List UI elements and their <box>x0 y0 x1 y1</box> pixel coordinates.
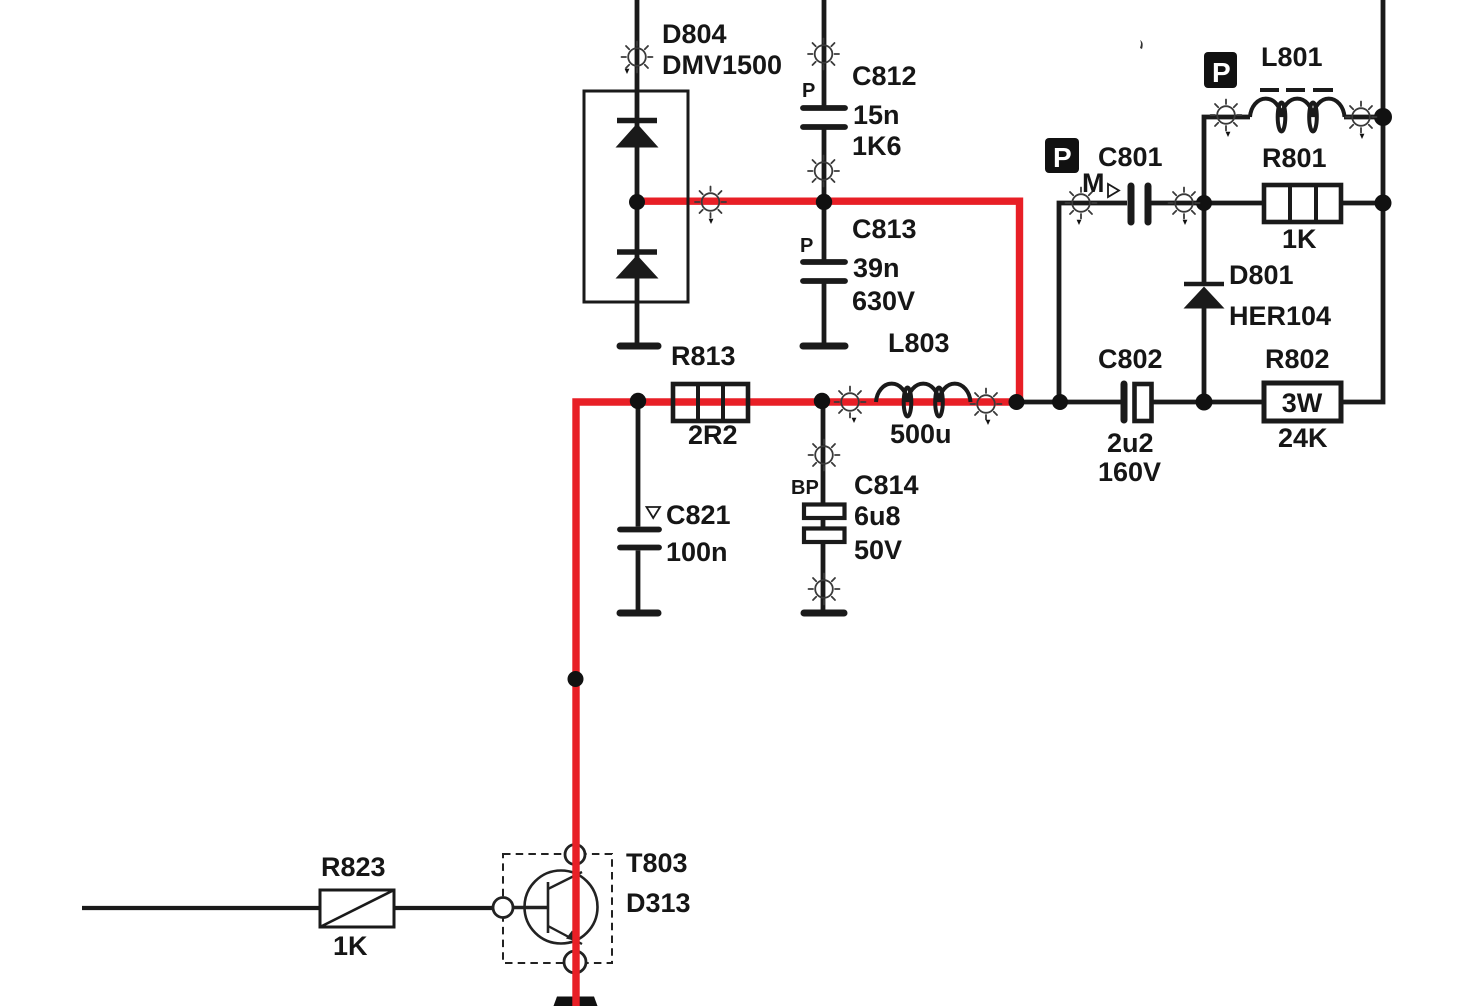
svg-text:P: P <box>802 80 815 102</box>
wire between C814 plates <box>821 517 826 529</box>
capacitor C814 plates <box>804 505 845 543</box>
svg-text:50V: 50V <box>854 535 902 565</box>
wire node to R801 left <box>1204 201 1265 206</box>
svg-text:L801: L801 <box>1261 42 1323 72</box>
svg-text:R801: R801 <box>1262 143 1327 173</box>
svg-text:1K: 1K <box>1282 224 1317 254</box>
svg-text:15n: 15n <box>853 100 900 130</box>
svg-text:R802: R802 <box>1265 344 1330 374</box>
svg-text:P: P <box>800 235 813 257</box>
inductor L803 <box>876 384 971 417</box>
svg-text:2R2: 2R2 <box>688 420 738 450</box>
svg-text:R823: R823 <box>321 852 386 882</box>
wire highlighted red net <box>576 201 1020 1006</box>
wire R823 to transistor base ring <box>393 906 494 910</box>
test point sun left of C801 <box>1066 188 1097 219</box>
capacitor C802 <box>1124 384 1152 421</box>
wire node down to D801 cathode <box>1202 203 1207 283</box>
service mark P square near L801 <box>1204 52 1237 88</box>
resistor R813 <box>673 384 748 421</box>
svg-text:C814: C814 <box>854 470 919 500</box>
test point sun below C812 <box>808 156 839 187</box>
svg-text:P: P <box>1212 57 1231 88</box>
svg-text:D801: D801 <box>1229 260 1294 290</box>
resistor R823 <box>320 890 394 927</box>
svg-text:160V: 160V <box>1098 457 1161 487</box>
wire C814 branch down <box>821 402 826 505</box>
test point sun above C814 <box>809 440 840 471</box>
node C801 branch <box>1052 394 1068 410</box>
svg-text:500u: 500u <box>890 419 952 449</box>
test point sun on D804 top wire <box>622 42 653 73</box>
service mark P square near C801 <box>1045 138 1079 173</box>
wire L801 right to bus <box>1344 115 1383 120</box>
node red corner <box>1009 394 1025 410</box>
node R813 left <box>630 393 646 409</box>
polarity mark M arrow C801 <box>1108 184 1119 197</box>
resistor R801 <box>1264 185 1341 222</box>
capacitor C801 plates <box>1131 186 1148 222</box>
svg-text:P: P <box>1053 142 1072 173</box>
wire C821 branch down <box>636 402 641 527</box>
capacitor C813 plates <box>803 262 845 281</box>
wire R801 right to bus <box>1340 201 1383 206</box>
svg-text:1K: 1K <box>333 931 368 961</box>
svg-text:1K6: 1K6 <box>852 131 902 161</box>
node D801 anode <box>1196 394 1213 411</box>
test point sun above C812 <box>808 39 839 70</box>
svg-text:3W: 3W <box>1282 388 1323 418</box>
diode D801 <box>1184 284 1225 309</box>
capacitor C812 plates <box>803 108 845 127</box>
wire C802 to D801 node and R802 <box>1151 400 1265 405</box>
svg-text:100n: 100n <box>666 537 728 567</box>
svg-text:39n: 39n <box>853 253 900 283</box>
diode D804 lower <box>616 252 659 279</box>
test point sun left of L801 <box>1211 100 1242 131</box>
ground below C813 <box>803 343 845 350</box>
svg-text:C801: C801 <box>1098 142 1163 172</box>
node C812/C813 junction <box>816 194 832 210</box>
wire C821 to ground <box>636 551 641 611</box>
wire C813 to ground <box>822 284 827 344</box>
capacitor C821 plates <box>620 530 659 548</box>
svg-text:C821: C821 <box>666 500 731 530</box>
core dashes L801 <box>1260 88 1333 92</box>
svg-text:DMV1500: DMV1500 <box>662 50 782 80</box>
svg-text:C802: C802 <box>1098 344 1163 374</box>
resistor R802 <box>1264 383 1341 421</box>
transistor T803 <box>493 845 612 974</box>
inductor L801 <box>1250 99 1345 132</box>
dual diode D804 outline box <box>584 91 688 302</box>
wire between C812 and C813 <box>822 130 827 260</box>
wire C814 to ground <box>821 542 826 610</box>
diode D804 upper <box>616 121 659 148</box>
ground below T803 emitter <box>554 997 598 1006</box>
svg-text:D804: D804 <box>662 19 727 49</box>
svg-text:C813: C813 <box>852 214 917 244</box>
node C801/R801/D801 <box>1196 195 1212 211</box>
svg-text:2u2: 2u2 <box>1107 428 1154 458</box>
test point sun left of L803 <box>835 387 866 418</box>
test point sun right of L803 <box>971 389 1002 420</box>
svg-text:BP: BP <box>791 477 819 499</box>
wire vertical into D804 top <box>635 0 640 343</box>
node C814 branch <box>814 393 830 409</box>
svg-text:24K: 24K <box>1278 423 1328 453</box>
node D804 centre <box>629 194 645 210</box>
wire vertical C812/C813 column <box>822 0 827 106</box>
wire D801 anode down to main line <box>1202 307 1207 402</box>
node on red wire above T803 <box>568 671 584 687</box>
test point sun right of C801 <box>1169 188 1200 219</box>
svg-text:T803: T803 <box>626 848 688 878</box>
svg-text:M: M <box>1082 168 1105 198</box>
wire right vertical bus <box>1341 0 1383 402</box>
ground below C821 <box>620 610 658 617</box>
node R801 right <box>1375 195 1392 212</box>
svg-text:C812: C812 <box>852 61 917 91</box>
ink speck <box>1140 40 1143 49</box>
svg-text:D313: D313 <box>626 888 691 918</box>
svg-text:6u8: 6u8 <box>854 501 901 531</box>
test point sun below C814 <box>809 574 840 605</box>
ground below C814 <box>804 610 844 617</box>
wire main horizontal from red corner to C802 <box>1017 400 1121 405</box>
wire base line from left edge <box>82 906 321 910</box>
wire C801 left leg down to main line <box>1059 203 1127 402</box>
ground below D804 <box>620 343 658 350</box>
svg-text:630V: 630V <box>852 286 915 316</box>
test point sun right of L801 <box>1346 102 1377 133</box>
wire C801 right to node <box>1148 201 1204 206</box>
node L801 right <box>1374 108 1392 126</box>
test point sun on red wire near D804 <box>695 187 726 218</box>
wire L801 branch <box>1204 117 1250 203</box>
svg-text:R813: R813 <box>671 341 736 371</box>
polarity mark C821 <box>647 507 661 518</box>
svg-text:L803: L803 <box>888 328 950 358</box>
svg-text:HER104: HER104 <box>1229 301 1331 331</box>
